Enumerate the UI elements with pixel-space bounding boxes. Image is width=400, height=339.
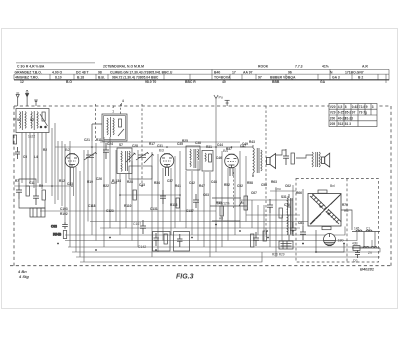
- svg-text:B.18: B.18: [77, 76, 84, 80]
- svg-text:FIG.3: FIG.3: [176, 274, 194, 281]
- power unit dashed enclosure: [296, 179, 379, 263]
- svg-text:C38: C38: [195, 141, 201, 145]
- svg-text:S7: S7: [119, 143, 123, 147]
- svg-text:BBB: BBB: [272, 80, 280, 84]
- svg-text:8.10: 8.10: [55, 76, 62, 80]
- junction: [231, 146, 233, 148]
- svg-text:R12: R12: [59, 179, 65, 183]
- screening box 2: [174, 232, 190, 252]
- svg-text:R34: R34: [154, 181, 160, 185]
- wire: [54, 123, 56, 204]
- parts-list footer text: [20, 80, 326, 84]
- wire: bus line 6: [72, 248, 380, 252]
- wire: [41, 133, 43, 190]
- svg-text:4: 4: [122, 99, 124, 103]
- svg-text:R66: R66: [296, 191, 302, 195]
- svg-text:180: 180: [338, 239, 344, 243]
- wire: [191, 171, 193, 235]
- svg-text:79 7g: 79 7g: [359, 111, 367, 115]
- wire: [87, 150, 89, 222]
- wire: [269, 207, 271, 247]
- resistor R64: [263, 231, 266, 241]
- wire link: [363, 232, 365, 249]
- wave switch comb wires: [22, 133, 46, 190]
- resistor R60: [291, 153, 294, 164]
- junction: [239, 230, 241, 232]
- svg-text:C44: C44: [217, 143, 223, 147]
- svg-text:1e22: 1e22: [28, 135, 35, 139]
- svg-text:B 2: B 2: [358, 76, 363, 80]
- svg-text:B2: B2: [65, 147, 71, 152]
- wire: anode rail: [100, 141, 240, 143]
- junction: [119, 194, 121, 196]
- junction: [215, 224, 217, 226]
- gang link (dashed): [141, 104, 143, 186]
- svg-text:R52: R52: [224, 183, 230, 187]
- wire: [287, 196, 289, 235]
- wire: mains lead upper: [352, 231, 380, 233]
- extension speaker transformer S23: [312, 152, 320, 167]
- loudspeaker LS2: [322, 153, 330, 167]
- svg-text:GRANDEZ T.B.O.: GRANDEZ T.B.O.: [15, 70, 42, 74]
- IF transformer 2 S13/S14: [186, 146, 200, 170]
- table frame: [329, 104, 377, 127]
- svg-text:A.R: A.R: [362, 65, 368, 69]
- wire: [95, 143, 97, 241]
- svg-text:98.0 70: 98.0 70: [145, 80, 156, 84]
- svg-text:B40: B40: [214, 70, 220, 74]
- capacitor C168: [253, 232, 259, 246]
- capacitor C107: [140, 220, 146, 234]
- gang link left (dashed): [95, 104, 97, 141]
- output transformer S21: [253, 145, 262, 176]
- wire: bus line 2: [100, 227, 300, 229]
- wire: grid rail: [55, 146, 246, 148]
- wire link: [374, 232, 376, 249]
- wire: [281, 215, 283, 241]
- svg-text:C103: C103: [60, 207, 68, 211]
- junction: [302, 243, 304, 245]
- svg-text:R70: R70: [342, 203, 348, 207]
- wire: [179, 151, 181, 222]
- svg-text:C67: C67: [251, 191, 257, 195]
- svg-text:R25: R25: [182, 139, 188, 143]
- svg-text:R55: R55: [216, 201, 222, 205]
- wire: [227, 168, 229, 241]
- screening box 1: [153, 232, 171, 252]
- svg-text:97: 97: [352, 111, 356, 115]
- svg-text:R63: R63: [271, 180, 277, 184]
- svg-text:TO=BOXA: TO=BOXA: [214, 76, 231, 80]
- wire: [103, 137, 105, 247]
- power unit internal partition (dashed): [346, 179, 348, 263]
- junction: [57, 243, 59, 245]
- wire: [21, 133, 23, 184]
- resistor R72 on bridge: [322, 227, 331, 230]
- svg-text:R9: R9: [39, 184, 43, 188]
- wire: [157, 154, 159, 252]
- oscillator coil box S4: [92, 114, 127, 141]
- svg-text:C118: C118: [88, 204, 96, 208]
- tone capacitor C47: [283, 149, 289, 165]
- svg-text:81-23: 81-23: [345, 116, 353, 120]
- svg-text:0-63: 0-63: [352, 105, 359, 109]
- svg-text:C48: C48: [211, 180, 217, 184]
- wire: [151, 152, 153, 257]
- svg-text:C21: C21: [84, 138, 90, 142]
- capacitor Cg: [355, 250, 360, 258]
- wire: [120, 194, 180, 196]
- wire: [203, 172, 205, 247]
- wire: [69, 141, 71, 247]
- capacitor C80: [300, 226, 306, 240]
- svg-text:C142: C142: [138, 245, 146, 249]
- wire: [245, 156, 247, 222]
- svg-text:R2: R2: [43, 148, 47, 152]
- svg-text:4 Stg: 4 Stg: [18, 274, 29, 279]
- wire: [61, 141, 63, 206]
- resistor R59: [251, 234, 254, 247]
- tube B2 (frequency changer): [65, 154, 79, 168]
- junction: [302, 243, 304, 245]
- junction: [267, 237, 269, 239]
- capacitor C1: [15, 147, 20, 159]
- svg-text:4,5: 4,5: [338, 105, 343, 109]
- wire: [14, 185, 70, 187]
- wire: [57, 141, 59, 200]
- svg-text:Cg: Cg: [353, 259, 357, 263]
- resistor R26: [176, 198, 179, 208]
- svg-text:Ru: Ru: [344, 209, 348, 213]
- svg-text:BBBER VOBQA: BBBER VOBQA: [270, 76, 296, 80]
- wire: [29, 133, 31, 184]
- wire: [109, 137, 111, 228]
- wire: [73, 167, 75, 196]
- parts-list row 1 text: [15, 70, 364, 74]
- svg-text:7.7.3: 7.7.3: [295, 65, 303, 69]
- wire: [64, 144, 66, 222]
- svg-text:R19: R19: [87, 180, 93, 184]
- wire: [292, 185, 294, 228]
- resistor R71 on bridge: [318, 190, 327, 193]
- wire: [302, 189, 304, 226]
- tuning gang capacitor C9 (variable): [84, 152, 97, 160]
- tube B3 (IF amplifier): [160, 154, 174, 176]
- svg-text:C63: C63: [203, 193, 209, 197]
- svg-text:R58: R58: [247, 181, 253, 185]
- wire: [51, 128, 53, 196]
- svg-text:85-2: 85-2: [345, 111, 352, 115]
- wire: [70, 167, 72, 186]
- svg-text:R41: R41: [175, 184, 181, 188]
- svg-text:C107: C107: [133, 222, 141, 226]
- wire: [263, 205, 265, 241]
- svg-text:R11: R11: [96, 138, 102, 142]
- IF transformer S11/S12: [117, 148, 132, 174]
- wire: [75, 167, 77, 252]
- svg-text:R102: R102: [60, 212, 68, 216]
- wire: [234, 168, 236, 235]
- svg-text:3: 3: [372, 105, 374, 109]
- svg-text:C29: C29: [111, 181, 117, 185]
- svg-text:R22: R22: [103, 184, 109, 188]
- wire: bus line 8: [80, 252, 262, 262]
- svg-text:V29: V29: [330, 111, 336, 115]
- svg-text:Bnu: Bnu: [275, 187, 281, 191]
- svg-text:S2: S2: [30, 118, 34, 122]
- svg-text:Bnl: Bnl: [330, 184, 335, 188]
- capacitor C165: [177, 234, 183, 247]
- svg-text:2CTBNDURAL N.O M.R.M: 2CTBNDURAL N.O M.R.M: [103, 65, 144, 69]
- resistor R1: [13, 135, 16, 144]
- trimmer arrow on S12: [144, 154, 154, 163]
- svg-text:B.B.: B.B.: [98, 76, 105, 80]
- wire: [137, 150, 139, 247]
- svg-text:C49: C49: [242, 142, 248, 146]
- wire: [25, 133, 27, 187]
- wire: [174, 156, 176, 228]
- RF choke L90: [356, 230, 362, 231]
- wire: [341, 210, 352, 230]
- wire: [239, 151, 241, 228]
- junction: [95, 249, 97, 251]
- wire: AVC return line: [40, 210, 216, 212]
- choke cross-frame T1: [308, 194, 341, 227]
- antenna terminal A2: [26, 91, 29, 106]
- svg-text:CLMBO.GN 17.30.43 (73805.041: CLMBO.GN 17.30.43 (73805.041 BBC.U: [110, 70, 173, 74]
- bottom-left terminal box: [30, 208, 45, 217]
- junction: [166, 146, 168, 148]
- wire: [246, 214, 300, 216]
- loudspeaker LS1: [267, 154, 276, 169]
- junction: [215, 224, 217, 226]
- svg-text:40: 40: [222, 80, 226, 84]
- resistor R5: [42, 190, 45, 200]
- svg-text:R118: R118: [170, 203, 178, 207]
- svg-text:C63: C63: [51, 225, 57, 229]
- table text: [330, 105, 374, 126]
- svg-text:145: 145: [354, 227, 360, 231]
- parts-list header text: [17, 65, 368, 69]
- wire: [125, 174, 127, 228]
- junction: [292, 230, 294, 232]
- wire: [251, 200, 253, 228]
- wire: [221, 151, 223, 247]
- svg-text:V20: V20: [330, 105, 336, 109]
- junction: [179, 194, 181, 196]
- svg-text:81 3: 81 3: [345, 122, 351, 126]
- RF choke L92: [363, 247, 369, 248]
- junction: [141, 185, 143, 187]
- svg-text:R26 R29: R26 R29: [272, 253, 285, 257]
- wire: [212, 197, 241, 199]
- svg-text:R47: R47: [199, 184, 205, 188]
- svg-text:C58: C58: [261, 183, 267, 187]
- svg-text:8: 8: [345, 105, 347, 109]
- svg-text:R43: R43: [249, 140, 255, 144]
- svg-text:BBC R: BBC R: [185, 80, 196, 84]
- parts-list row 2 text: [15, 76, 363, 80]
- junction: [109, 237, 111, 239]
- svg-text:41%: 41%: [322, 65, 329, 69]
- wire: [45, 133, 47, 184]
- antenna terminal A1: [16, 93, 19, 106]
- RF choke L91: [366, 230, 372, 231]
- svg-text:C123: C123: [106, 209, 114, 213]
- svg-text:9: 9: [366, 105, 368, 109]
- svg-text:C81: C81: [298, 221, 304, 225]
- svg-text:C26: C26: [96, 177, 102, 181]
- svg-text:C137: C137: [186, 209, 194, 213]
- svg-text:96: 96: [288, 70, 292, 74]
- wire: [257, 205, 259, 235]
- wire: [37, 133, 39, 184]
- resistor R14: [133, 190, 136, 200]
- capacitor C4: [16, 183, 22, 199]
- dashed drop from frame: [120, 104, 122, 115]
- capacitor C55: [290, 222, 296, 236]
- label 4 tick: [121, 103, 123, 106]
- svg-text:R7: R7: [15, 179, 19, 183]
- resistor R48: [220, 206, 223, 216]
- wire: [316, 230, 344, 252]
- wire: [131, 161, 133, 241]
- wire: [162, 168, 164, 241]
- wire: bus line 3: [65, 227, 345, 236]
- junction: [315, 251, 317, 253]
- wire: [209, 172, 211, 257]
- svg-text:4MGNEZ T.RO.: 4MGNEZ T.RO.: [15, 76, 39, 80]
- wire: bus line 7: [76, 256, 380, 258]
- svg-text:DC 48 T: DC 48 T: [76, 70, 90, 74]
- svg-text:B.O: B.O: [66, 80, 72, 84]
- svg-text:S1: S1: [17, 118, 21, 122]
- wire: [91, 141, 93, 235]
- svg-text:C62: C62: [285, 184, 291, 188]
- wire: [83, 150, 85, 262]
- capacitor C40: [193, 194, 199, 208]
- svg-text:200: 200: [330, 116, 336, 120]
- mains transformer S31: [287, 194, 292, 241]
- tube B4 (output pentode): [225, 154, 239, 176]
- svg-text:C31: C31: [157, 144, 163, 148]
- resistor R57: [164, 234, 167, 244]
- svg-text:43B: 43B: [352, 242, 358, 246]
- capacitor C162: [154, 233, 160, 246]
- svg-text:Pu: Pu: [219, 96, 223, 100]
- capacitor C30: [160, 190, 166, 204]
- svg-text:B3: B3: [159, 148, 165, 153]
- aerial coil assembly L1/L2/SK1: [13, 109, 49, 133]
- svg-text:6-25: 6-25: [338, 111, 345, 115]
- wire: [170, 168, 172, 235]
- svg-text:GA: GA: [320, 80, 326, 84]
- svg-text:AB: AB: [219, 217, 223, 221]
- svg-text:171BO.GN7: 171BO.GN7: [345, 70, 364, 74]
- svg-text:R31: R31: [206, 145, 212, 149]
- grid-bias dashed link: [233, 172, 235, 208]
- svg-text:98: 98: [98, 70, 102, 74]
- wire: [240, 146, 253, 148]
- capacitor C6: [33, 189, 39, 205]
- trimmer arrow on S11: [126, 153, 136, 162]
- svg-text:12: 12: [20, 80, 24, 84]
- svg-text:C11: C11: [29, 181, 35, 185]
- svg-text:984.72 (1.30.4) 73805.04 BB: 984.72 (1.30.4) 73805.04 BBC: [112, 76, 159, 80]
- svg-text:ROOK: ROOK: [258, 65, 269, 69]
- pick-up terminal PU: [214, 95, 218, 99]
- svg-text:C46: C46: [216, 156, 222, 160]
- RF choke L93: [371, 247, 377, 248]
- resistor R54: [63, 231, 66, 239]
- svg-text:B40281: B40281: [360, 267, 375, 272]
- svg-text:C1: C1: [366, 227, 370, 231]
- svg-text:97: 97: [258, 76, 262, 80]
- svg-text:C28: C28: [132, 144, 138, 148]
- svg-text:C42: C42: [189, 181, 195, 185]
- junction: [91, 146, 93, 148]
- svg-text:L4: L4: [34, 155, 38, 159]
- mains voltage selector plate: [279, 241, 293, 249]
- wire: [197, 161, 199, 241]
- svg-text:C 3G R 4,R % BA: C 3G R 4,R % BA: [17, 65, 45, 69]
- wire: [210, 205, 247, 207]
- sheet note bottom-left: [17, 269, 29, 279]
- junction: [155, 249, 157, 251]
- wire: [19, 179, 36, 189]
- wire: [115, 150, 117, 222]
- capacitor C63: [62, 222, 68, 229]
- svg-text:72-9: 72-9: [359, 105, 366, 109]
- svg-text:17: 17: [232, 70, 236, 74]
- oscillator tuning capacitor C14 (variable): [136, 152, 149, 160]
- wire: [79, 171, 81, 257]
- junction: [51, 185, 53, 187]
- svg-text:C70: C70: [284, 203, 290, 207]
- wire: [33, 133, 35, 189]
- svg-text:AA 97: AA 97: [243, 70, 253, 74]
- svg-text:S31: S31: [281, 195, 287, 199]
- svg-text:C131: C131: [150, 207, 158, 211]
- svg-text:C24: C24: [107, 142, 113, 146]
- svg-text:4.00 O: 4.00 O: [52, 70, 63, 74]
- wire: [119, 174, 121, 235]
- junction: [266, 230, 268, 232]
- wire: [215, 98, 217, 252]
- earth terminal: [34, 100, 38, 106]
- wire: [212, 220, 240, 222]
- volume potentiometer R40: [239, 196, 248, 210]
- svg-text:R110: R110: [124, 204, 132, 208]
- chassis dashed frame: [10, 106, 392, 266]
- junction: [191, 237, 193, 239]
- wire: [185, 171, 187, 228]
- svg-text:GA 3: GA 3: [332, 76, 340, 80]
- junction: [215, 146, 217, 148]
- junction: [71, 185, 73, 187]
- svg-text:R17: R17: [149, 142, 155, 146]
- capacitor C50: [267, 199, 273, 213]
- svg-text:R54B: R54B: [53, 233, 62, 237]
- fuse box: [353, 246, 360, 251]
- wire: bus line 5: [68, 240, 372, 247]
- wire: [276, 150, 286, 155]
- wire: [240, 199, 293, 201]
- wire: [270, 190, 296, 192]
- wire: bus line 1: [90, 221, 334, 223]
- AVC dashed link: [265, 106, 267, 237]
- svg-text:C52: C52: [237, 184, 243, 188]
